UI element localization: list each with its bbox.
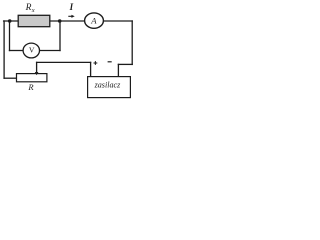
svg-text:I: I xyxy=(69,2,74,12)
svg-text:R: R xyxy=(25,3,32,13)
svg-text:V: V xyxy=(29,46,35,55)
svg-text:zasilacz: zasilacz xyxy=(94,81,121,90)
svg-text:A: A xyxy=(90,16,97,26)
svg-text:R: R xyxy=(27,82,34,92)
svg-text:x: x xyxy=(31,7,35,14)
